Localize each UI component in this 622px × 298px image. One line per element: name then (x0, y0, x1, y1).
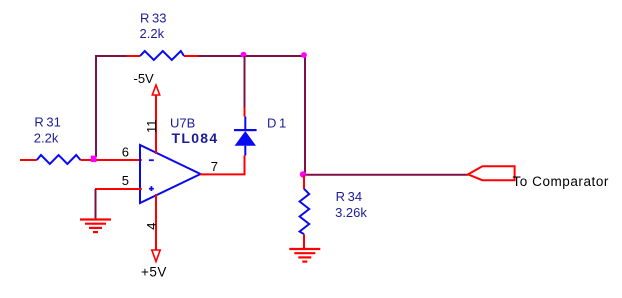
node junction output / R34 (300, 171, 306, 177)
diode D1 (234, 56, 257, 175)
wire right feedback vertical (304, 55, 306, 175)
label R34 value 3.26k (335, 189, 367, 220)
op-amp U7B TL084 (140, 145, 201, 203)
svg-text:U7B: U7B (170, 116, 195, 131)
svg-text:7: 7 (211, 159, 218, 174)
ground under pin 5 (80, 189, 111, 232)
node junction top rail / diode branch (241, 52, 247, 58)
label R33 value 2.2k (140, 11, 167, 42)
svg-text:To Comparator: To Comparator (513, 174, 609, 189)
resistor R33 (127, 51, 199, 60)
svg-text:D 1: D 1 (267, 116, 286, 131)
wire top feedback rail (95, 55, 306, 57)
svg-text:2.2k: 2.2k (140, 26, 165, 41)
svg-text:+5V: +5V (141, 265, 167, 280)
svg-text:5: 5 (122, 173, 129, 188)
pin 4 power wire (V+) (144, 194, 159, 250)
ground under R34 (289, 249, 320, 262)
label R31 value 2.2k (34, 115, 61, 146)
svg-text:11: 11 (144, 120, 159, 134)
off-page connector To Comparator (468, 166, 609, 189)
resistor R34 (300, 175, 310, 249)
svg-text:R 33: R 33 (140, 11, 166, 26)
svg-text:TL084: TL084 (172, 130, 219, 146)
node junction top rail right corner (301, 52, 307, 58)
svg-text:2.2k: 2.2k (34, 131, 59, 146)
svg-text:-5V: -5V (134, 71, 155, 86)
svg-text:3.26k: 3.26k (335, 205, 367, 220)
pin 7 output wire (200, 159, 246, 174)
power symbol -5V arrow (134, 71, 160, 95)
pin 11 power wire (V-) (144, 95, 159, 154)
resistor R31 (20, 155, 142, 164)
wire left feedback vertical (95, 55, 97, 157)
svg-text:R 34: R 34 (336, 189, 362, 204)
power symbol +5V arrow (141, 250, 167, 280)
svg-text:R 31: R 31 (34, 115, 60, 130)
wire output to comparator (303, 174, 468, 176)
svg-text:4: 4 (144, 222, 159, 229)
pin 5 wire (non-inverting input) (95, 173, 142, 189)
node junction at R31 output (91, 156, 97, 163)
svg-text:6: 6 (122, 145, 129, 160)
